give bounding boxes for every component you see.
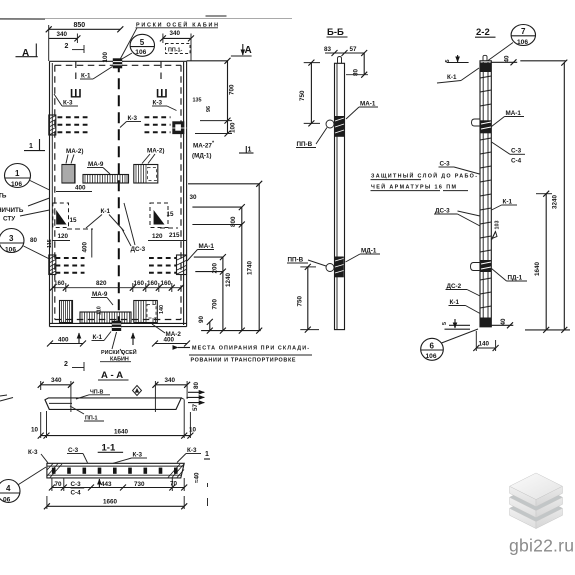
svg-text:А - А: А - А xyxy=(101,370,123,381)
svg-text:1640: 1640 xyxy=(534,261,541,276)
svg-text:4: 4 xyxy=(6,484,11,493)
svg-text:730: 730 xyxy=(134,481,145,488)
svg-text:С-3: С-3 xyxy=(71,481,82,488)
svg-text:140: 140 xyxy=(159,305,165,314)
svg-text:400: 400 xyxy=(75,185,86,192)
svg-text:РИСКИ ОСЕЙ КАБИН: РИСКИ ОСЕЙ КАБИН xyxy=(136,20,218,28)
svg-text:140: 140 xyxy=(479,341,490,348)
svg-text:ДС-2: ДС-2 xyxy=(447,283,462,290)
svg-text:3240: 3240 xyxy=(552,194,559,209)
svg-text:5: 5 xyxy=(442,322,448,325)
svg-text:ЗАЩИТНЫЙ СЛОЙ ДО РАБО-: ЗАЩИТНЫЙ СЛОЙ ДО РАБО- xyxy=(371,172,477,180)
svg-text:160: 160 xyxy=(161,280,172,287)
svg-text:57: 57 xyxy=(350,46,358,53)
svg-text:800: 800 xyxy=(230,216,237,227)
svg-text:106: 106 xyxy=(11,181,22,188)
svg-text:820: 820 xyxy=(96,280,107,287)
svg-text:80: 80 xyxy=(193,381,200,389)
svg-text:700: 700 xyxy=(229,84,236,95)
svg-text:≈40: ≈40 xyxy=(194,472,201,483)
svg-text:103: 103 xyxy=(495,221,501,230)
svg-text:СТУ: СТУ xyxy=(3,216,15,223)
svg-text:С-3: С-3 xyxy=(511,148,522,155)
svg-text:К-1: К-1 xyxy=(81,73,91,80)
svg-text:1740: 1740 xyxy=(247,260,254,275)
svg-text:160: 160 xyxy=(54,280,65,287)
svg-text:100: 100 xyxy=(230,122,237,133)
svg-text:К-1: К-1 xyxy=(503,199,513,206)
svg-text:200: 200 xyxy=(212,262,219,273)
svg-text:400: 400 xyxy=(58,337,69,344)
svg-text:340: 340 xyxy=(165,377,176,384)
svg-text:К-3: К-3 xyxy=(28,449,38,456)
svg-text:750: 750 xyxy=(299,90,306,101)
svg-text:РИСКИ ОСЕЙ: РИСКИ ОСЕЙ xyxy=(101,348,137,356)
svg-text:750: 750 xyxy=(297,295,304,306)
svg-text:К-1: К-1 xyxy=(447,74,457,81)
svg-text:МА-1: МА-1 xyxy=(360,101,376,108)
svg-text:135: 135 xyxy=(193,98,202,104)
svg-text:МА-2): МА-2) xyxy=(66,148,84,155)
svg-text:106: 106 xyxy=(5,247,16,254)
svg-text:К-3: К-3 xyxy=(133,452,143,459)
svg-text:110: 110 xyxy=(97,306,103,315)
svg-text:80: 80 xyxy=(30,237,38,244)
svg-text:1660: 1660 xyxy=(103,499,118,506)
svg-text:30: 30 xyxy=(190,194,198,201)
svg-text:340: 340 xyxy=(57,31,68,38)
svg-text:ПД-1: ПД-1 xyxy=(508,275,523,282)
svg-text:МА-9: МА-9 xyxy=(92,291,108,298)
svg-text:340: 340 xyxy=(170,30,181,37)
svg-text:6: 6 xyxy=(430,342,435,351)
svg-text:ПП-1-: ПП-1- xyxy=(168,48,183,54)
svg-text:С-4: С-4 xyxy=(71,490,82,497)
svg-text:А: А xyxy=(245,45,252,56)
svg-text:96: 96 xyxy=(206,106,212,112)
svg-text:1: 1 xyxy=(205,451,209,458)
svg-text:850: 850 xyxy=(74,22,86,29)
svg-text:К-3: К-3 xyxy=(128,115,138,122)
svg-text:106: 106 xyxy=(426,353,437,360)
svg-text:215: 215 xyxy=(169,232,180,239)
svg-text:7: 7 xyxy=(521,27,526,36)
svg-text:С-3: С-3 xyxy=(68,447,79,454)
svg-text:2: 2 xyxy=(65,43,69,50)
svg-text:15: 15 xyxy=(167,211,175,218)
svg-text:ЧЕЙ АРМАТУРЫ 16 ПМ: ЧЕЙ АРМАТУРЫ 16 ПМ xyxy=(371,183,457,191)
svg-text:15: 15 xyxy=(70,217,78,224)
svg-text:106: 106 xyxy=(135,49,146,56)
svg-text:160: 160 xyxy=(134,280,145,287)
svg-text:С-3: С-3 xyxy=(440,161,451,168)
svg-text:МА-2: МА-2 xyxy=(166,331,182,338)
svg-text:РОВАНИИ И ТРАНСПОРТИРОВКЕ: РОВАНИИ И ТРАНСПОРТИРОВКЕ xyxy=(191,357,296,363)
svg-text:700: 700 xyxy=(212,298,219,309)
svg-text:1640: 1640 xyxy=(114,429,129,436)
svg-text:400: 400 xyxy=(82,241,89,252)
svg-text:ПП-В: ПП-В xyxy=(297,141,313,148)
svg-text:К-1: К-1 xyxy=(101,208,111,215)
svg-text:340: 340 xyxy=(51,377,62,384)
svg-text:160: 160 xyxy=(147,280,158,287)
svg-text:2: 2 xyxy=(64,361,68,368)
svg-text:МА-1: МА-1 xyxy=(199,243,215,250)
svg-text:ТЬ: ТЬ xyxy=(0,193,7,200)
svg-text:1: 1 xyxy=(29,143,33,150)
svg-text:С-4: С-4 xyxy=(511,158,522,165)
svg-text:НИЧИТЬ: НИЧИТЬ xyxy=(0,207,24,214)
svg-text:70: 70 xyxy=(170,481,178,488)
svg-text:ДС-3: ДС-3 xyxy=(131,246,146,253)
svg-text:1: 1 xyxy=(15,169,20,178)
svg-text:МА-27: МА-27 xyxy=(193,143,212,150)
svg-text:70: 70 xyxy=(55,481,63,488)
svg-text:3: 3 xyxy=(9,234,14,243)
svg-text:МЕСТА ОПИРАНИЯ ПРИ СКЛАДИ-: МЕСТА ОПИРАНИЯ ПРИ СКЛАДИ- xyxy=(192,346,309,352)
svg-text:115: 115 xyxy=(47,239,53,248)
svg-text:К-3: К-3 xyxy=(63,100,73,107)
svg-text:ПП-В: ПП-В xyxy=(288,257,304,264)
svg-text:57: 57 xyxy=(192,403,199,411)
svg-text:К-3: К-3 xyxy=(153,100,163,107)
svg-text:А: А xyxy=(22,48,29,59)
svg-text:МА-9: МА-9 xyxy=(88,161,104,168)
svg-text:Б-Б: Б-Б xyxy=(327,27,344,38)
svg-text:(МД-1): (МД-1) xyxy=(192,153,212,160)
svg-text:МД-1: МД-1 xyxy=(361,248,377,255)
svg-text:МА-1: МА-1 xyxy=(506,110,522,117)
svg-text:120: 120 xyxy=(152,233,163,240)
svg-text:2-2: 2-2 xyxy=(476,27,490,38)
svg-text:106: 106 xyxy=(517,39,528,46)
svg-text:443: 443 xyxy=(101,481,112,488)
svg-text:5: 5 xyxy=(140,38,145,47)
svg-text:К-1: К-1 xyxy=(450,299,460,306)
svg-text:gbi22.ru: gbi22.ru xyxy=(509,536,574,556)
svg-text:1240: 1240 xyxy=(225,272,232,287)
svg-text:40: 40 xyxy=(504,55,511,63)
svg-text:06: 06 xyxy=(3,497,11,504)
svg-text:120: 120 xyxy=(58,233,69,240)
svg-text:40: 40 xyxy=(500,318,507,326)
svg-text:ДС-3: ДС-3 xyxy=(435,208,450,215)
svg-text:83: 83 xyxy=(324,46,332,53)
svg-text:К-1: К-1 xyxy=(93,334,103,341)
svg-text:90: 90 xyxy=(198,315,205,323)
svg-text:МА-2): МА-2) xyxy=(147,148,165,155)
svg-text:10: 10 xyxy=(31,427,39,434)
svg-text:100: 100 xyxy=(102,51,109,62)
svg-text:К-3: К-3 xyxy=(187,447,197,454)
